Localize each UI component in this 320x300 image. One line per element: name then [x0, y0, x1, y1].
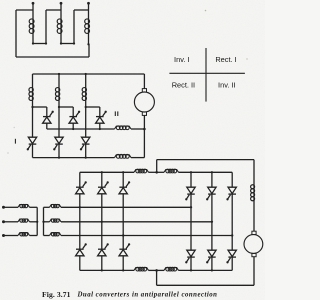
svg-text:Fig. 3.71: Fig. 3.71 [42, 290, 71, 299]
svg-text:Rect. II: Rect. II [172, 80, 195, 89]
svg-text:Rect. I: Rect. I [215, 55, 236, 64]
svg-text:Inv. I: Inv. I [174, 55, 189, 64]
svg-text:Dual converters in antiparalle: Dual converters in antiparallel connecti… [77, 292, 218, 299]
svg-text:Inv. II: Inv. II [218, 80, 236, 89]
